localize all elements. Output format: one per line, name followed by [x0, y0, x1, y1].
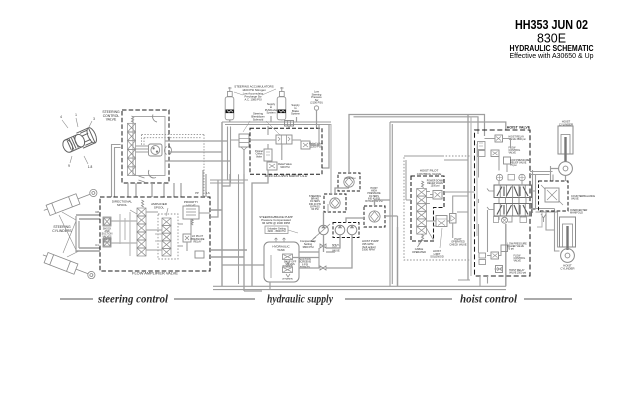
- svg-text:CONTROL VALVE: CONTROL VALVE: [417, 172, 442, 176]
- svg-text:PP: PP: [195, 191, 199, 195]
- svg-text:HH353 JUN 02: HH353 JUN 02: [515, 18, 588, 32]
- hoist pilot dotted enclosure: [404, 156, 471, 260]
- wire: PLM supply drop: [270, 116, 272, 122]
- flow control valve top box: [491, 150, 499, 157]
- svg-text:CYLINDER: CYLINDER: [560, 267, 574, 271]
- poppet check valve: [264, 149, 272, 161]
- svg-text:hydraulic supply: hydraulic supply: [267, 294, 334, 306]
- counterbalance valve internals: [545, 188, 559, 202]
- wire: manifold internals: [230, 125, 319, 175]
- svg-text:75 psi: 75 psi: [510, 164, 517, 167]
- steering cylinder bottom: [40, 251, 96, 281]
- wire: pilot dotted line from SCV to FAV: [142, 135, 205, 138]
- manifold relief valve 900: [267, 162, 277, 170]
- hoist relay valve top box: [495, 135, 503, 142]
- wire: FAV internals: [111, 212, 210, 251]
- svg-text:(STRAINER): (STRAINER): [282, 278, 293, 281]
- steering filter upper box: [338, 173, 360, 191]
- hoist valve left port box lower: [478, 151, 486, 157]
- wire: cylinder lines to flow amplifier: [76, 215, 100, 251]
- svg-text:3200 - 3500 PSI: 3200 - 3500 PSI: [267, 230, 285, 233]
- wire: brake supply drop: [296, 117, 298, 122]
- shock and suction valves upper: [103, 217, 111, 226]
- wire: FAV right side connections: [210, 210, 247, 257]
- flow control valve bottom box: [491, 252, 499, 259]
- steering cylinder top: [42, 187, 98, 217]
- svg-text:System: System: [291, 112, 301, 116]
- svg-text:(2100 PSI): (2100 PSI): [310, 101, 323, 105]
- steering control valve box: [122, 110, 169, 183]
- section label: steering control left dash: [60, 298, 93, 300]
- svg-text:Valve: Valve: [256, 155, 263, 158]
- steering control valve spool springs: [132, 116, 134, 123]
- wire: hoist valve exit to top cylinder: [530, 172, 553, 175]
- wire: SCV spool to gyrotor links: [136, 146, 149, 152]
- shut-off valve 1: [320, 244, 326, 248]
- check valve circle row top left: [496, 174, 502, 180]
- check valve bottom right of FAV: [195, 251, 204, 258]
- tank inner line: [270, 255, 272, 278]
- svg-text:1.8: 1.8: [88, 165, 93, 169]
- steering pump 3D drawing: [60, 126, 98, 155]
- manifold 3-section valve: [276, 135, 292, 144]
- hoist pump box: [333, 223, 359, 238]
- check valve circle row top right: [519, 174, 525, 180]
- hoist valve box: [475, 130, 531, 276]
- wire: hoist pilot supply lines: [467, 115, 469, 281]
- wire: return bus bottom double line: [213, 286, 506, 289]
- svg-text:3: 3: [93, 117, 95, 121]
- cable operated linkage: [418, 228, 434, 247]
- hoist pump circle 1: [335, 225, 345, 235]
- bleeddown solenoid valve: [239, 134, 249, 147]
- wire: hoist valve bottom returns: [458, 276, 488, 286]
- shut-off valve 2: [320, 266, 326, 270]
- counterbalance valve box: [539, 181, 569, 211]
- tank breather arrows: [275, 238, 286, 242]
- wire: accumulator supply bus double line: [222, 122, 331, 125]
- hoist cylinder top eye: [559, 162, 573, 176]
- wire: link to tank top: [222, 264, 264, 266]
- hoist cylinder top: [558, 126, 573, 154]
- hoist pilot control valve box: [411, 176, 444, 241]
- wire: steering pump to filters to bus: [324, 115, 352, 253]
- wire: cylinder hoses: [59, 212, 79, 257]
- wire: hoist valve right side pipes: [533, 170, 536, 213]
- directional spool: [137, 208, 146, 216]
- svg-text:1400 PSI Nitrogen: 1400 PSI Nitrogen: [242, 88, 266, 92]
- svg-text:Solenoid: Solenoid: [253, 117, 264, 121]
- svg-text:75 psi: 75 psi: [508, 248, 515, 251]
- amplifier spool: [162, 218, 171, 226]
- steering pump circle: [319, 225, 329, 235]
- hoist cylinder bottom: [560, 217, 576, 247]
- wire: manifold to FAV link verticals: [228, 127, 231, 184]
- svg-text:VALVE: VALVE: [186, 203, 195, 207]
- steering control valve gyrotor housing: [149, 144, 163, 156]
- hoist valve left port boxes bottom: [479, 253, 486, 258]
- steering filter lower symbol: [330, 198, 340, 208]
- accumulator 1 stem: [229, 120, 231, 122]
- svg-text:3800 PSI: 3800 PSI: [302, 245, 313, 249]
- svg-text:HOIST VALVE: HOIST VALVE: [507, 126, 531, 130]
- wire: manifold extra drop: [238, 174, 240, 284]
- hoist spool 1 cell dividers: [500, 185, 525, 198]
- wire: SCV to FAV verticals: [128, 183, 181, 197]
- hoist pilot spool bottom spring: [422, 235, 424, 242]
- hoist filter symbol: [369, 211, 380, 222]
- svg-text:VALVE: VALVE: [509, 152, 517, 155]
- small manifold component above bleeddown: [285, 121, 294, 127]
- svg-text:IND 40 PSI: IND 40 PSI: [345, 178, 356, 180]
- svg-text:TANK: TANK: [277, 248, 285, 252]
- wire: FAV top ports to supply: [203, 170, 206, 197]
- priority valve: [183, 206, 199, 219]
- hoist pump circle 2: [347, 225, 357, 235]
- section label: dash after hoist control: [524, 298, 572, 300]
- glyph row below spool 2: left box: [494, 217, 499, 223]
- wire: top cylinder to counterbalance: [551, 169, 566, 182]
- accumulator 1: [225, 97, 234, 120]
- steering control valve bottom spring: [139, 176, 145, 182]
- tank strainer 1: [283, 254, 293, 260]
- svg-text:FLOW AMPLIFIER VALVE: FLOW AMPLIFIER VALVE: [132, 271, 178, 276]
- gyrotor side brackets: [165, 147, 172, 155]
- wire: hoist valve exit to bottom cylinder: [530, 209, 558, 213]
- low steering pressure switch: [314, 106, 318, 110]
- wire: upper supply line to hoist valve: [351, 115, 485, 137]
- hoist relay valve bottom box: [496, 266, 503, 273]
- manifold relief valve 1200: [301, 141, 310, 149]
- hydraulic tank: [264, 242, 299, 282]
- wire: pilot valve connections: [426, 192, 449, 222]
- svg-text:SPOOL: SPOOL: [154, 205, 165, 209]
- shock and suction valves lower: [103, 238, 111, 247]
- wire: spool interconnect stubs: [499, 198, 526, 204]
- svg-text:9: 9: [68, 164, 70, 168]
- wire: manifold right riser: [322, 125, 329, 169]
- svg-text:BLEEDDOWN MANIFOLD: BLEEDDOWN MANIFOLD: [265, 174, 308, 178]
- steering filter upper symbol: [344, 177, 354, 187]
- svg-text:4: 4: [60, 115, 62, 119]
- steering filter lower box: [324, 194, 346, 212]
- svg-text:System: System: [267, 111, 277, 115]
- wire: manifold to FAV link horizontals: [210, 180, 248, 183]
- steering control valve spool: [128, 123, 136, 132]
- unloader setting box: [265, 226, 288, 234]
- svg-text:C8: C8: [95, 210, 99, 214]
- wire: spool drop to return: [505, 224, 507, 286]
- wire: suction lines from tank to pumps: [293, 252, 319, 268]
- hoist limit solenoid box: [436, 216, 447, 227]
- steering control valve arc top: [153, 115, 157, 123]
- svg-text:96 GPM @ 1900 RPM: 96 GPM @ 1900 RPM: [262, 221, 291, 225]
- accumulator 2 stem: [281, 120, 283, 121]
- svg-text:A.C. 1085 PSI: A.C. 1085 PSI: [244, 97, 261, 101]
- steering control valve arc bottom: [148, 170, 156, 178]
- drain Y symbol: [541, 214, 546, 222]
- hoist cylinder bottom eye: [561, 249, 575, 263]
- wire: pilot to hoist valve links: [434, 192, 475, 226]
- wire: hoist supply riser: [390, 122, 392, 286]
- hoist spool 2 cell dividers: [500, 204, 525, 217]
- wire: hoist pump to filter to bus: [346, 200, 391, 223]
- svg-text:1: 1: [75, 113, 77, 117]
- hoist spool 1: [494, 185, 532, 198]
- svg-text:C1: C1: [95, 243, 99, 247]
- svg-text:steering control: steering control: [97, 294, 169, 306]
- section label: dash between steering and hydraulic: [174, 298, 255, 300]
- wire: bottom cylinder to counterbalance: [546, 211, 554, 230]
- svg-text:CYLINDERS: CYLINDERS: [52, 229, 72, 233]
- compensator arrow: [313, 224, 330, 239]
- svg-text:VALVE: VALVE: [106, 118, 117, 122]
- section label: dash between hydraulic and hoist: [345, 298, 452, 300]
- svg-text:60 PSI: 60 PSI: [311, 208, 319, 211]
- steering control valve inner frame: [133, 117, 165, 176]
- small box beside check circles: [508, 175, 515, 181]
- wire: supply bus to hoist valve: [390, 122, 506, 130]
- hoist spool 2: [494, 204, 532, 217]
- accumulator 2 top valve: [279, 92, 284, 97]
- wire: accumulator 2 drop to manifold: [288, 126, 290, 128]
- svg-text:MANIFOLD: MANIFOLD: [570, 212, 583, 215]
- glyph row below spool 2: check circle: [502, 217, 508, 223]
- wire: SCV right outputs: [165, 141, 231, 161]
- pilot operated check valve: [450, 214, 457, 224]
- steering control valve gyrotor circle: [151, 146, 160, 155]
- svg-text:VALVE: VALVE: [571, 198, 579, 201]
- svg-text:VALVE 2500 psi: VALVE 2500 psi: [509, 272, 527, 275]
- hoist filter box: [364, 206, 385, 227]
- wire: SCV left ports down to FAV: [112, 145, 121, 198]
- svg-text:VALVE: VALVE: [514, 260, 522, 263]
- svg-text:SOLENOID: SOLENOID: [430, 255, 444, 259]
- svg-text:Effective with A30650 & Up: Effective with A30650 & Up: [510, 51, 594, 60]
- svg-text:1500 psi: 1500 psi: [431, 186, 440, 188]
- low pressure relief bottom box: [501, 245, 508, 252]
- wire: cylinder bus verticals: [76, 216, 79, 252]
- wire: solenoid drop: [243, 150, 245, 174]
- bleeddown manifold box: [250, 128, 322, 174]
- amplifier spool dotted box: [158, 214, 178, 259]
- svg-text:SPOOL: SPOOL: [117, 203, 128, 207]
- svg-text:RELAY: RELAY: [193, 241, 201, 244]
- hoist valve left port box upper: [478, 142, 486, 150]
- wire: hoist valve internals: [479, 139, 511, 270]
- wire: manifold returns to tank: [244, 174, 268, 291]
- wire: tank bottom drain: [244, 282, 270, 291]
- svg-text:hoist control: hoist control: [460, 294, 518, 306]
- svg-text:CHECK VALVE: CHECK VALVE: [449, 243, 466, 246]
- svg-text:900 PSI: 900 PSI: [280, 165, 290, 169]
- power down relief valve box: [433, 191, 442, 200]
- svg-text:OPERATED: OPERATED: [412, 250, 426, 254]
- svg-text:1900 RPM: 1900 RPM: [362, 248, 375, 252]
- svg-text:LS: LS: [206, 191, 209, 195]
- accumulator 2: [277, 97, 286, 120]
- wire: counterbalance drains: [537, 211, 542, 227]
- accumulator 1 top valve: [227, 92, 232, 97]
- low pressure relief top box: [504, 157, 511, 164]
- tank strainer 2: [283, 267, 293, 273]
- steering pump leader lines: [62, 118, 92, 164]
- svg-text:VALVE 3500 psi: VALVE 3500 psi: [509, 138, 527, 141]
- lo pilot pressure relay valve: [183, 234, 191, 242]
- flow amplifier valve box: [100, 197, 210, 271]
- hoist pilot spool: [417, 189, 427, 197]
- glyph row below spool 2: right box: [520, 217, 527, 223]
